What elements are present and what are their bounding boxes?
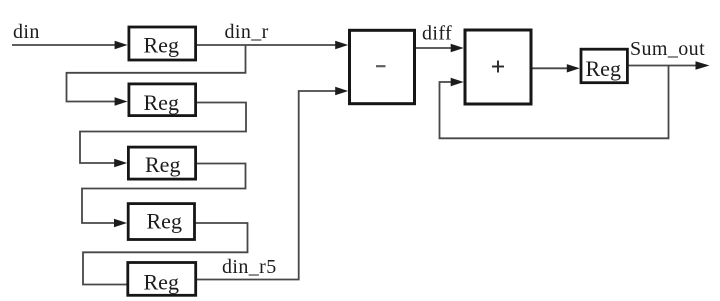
svg-text:Sum_out: Sum_out xyxy=(630,38,705,60)
svg-text:Reg: Reg xyxy=(144,269,179,294)
svg-text:Reg: Reg xyxy=(145,152,180,177)
svg-text:din: din xyxy=(13,21,40,43)
svg-text:Reg: Reg xyxy=(147,209,182,234)
svg-text:Reg: Reg xyxy=(144,32,179,57)
svg-text:Reg: Reg xyxy=(144,90,179,115)
svg-text:din_r: din_r xyxy=(225,21,269,43)
svg-text:din_r5: din_r5 xyxy=(222,256,277,278)
svg-text:diff: diff xyxy=(422,23,452,45)
svg-text:Reg: Reg xyxy=(586,56,621,81)
